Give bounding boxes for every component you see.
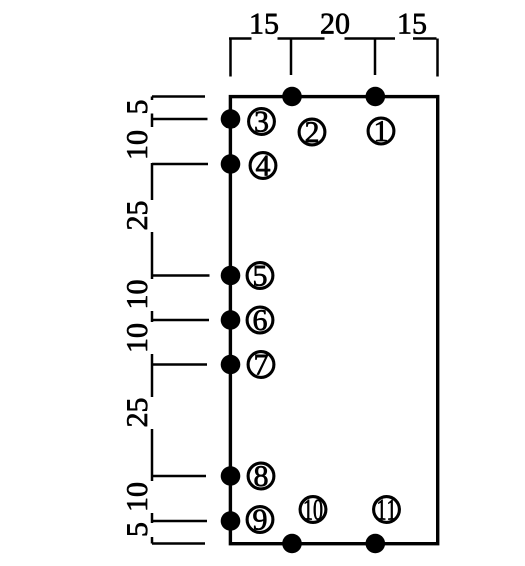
dim label 10 (left, segment 5) bbox=[127, 324, 147, 350]
dim label 15 (top left) bbox=[252, 14, 278, 34]
hole 5 (left edge) bbox=[221, 266, 241, 286]
tick: left dimension at 85 bbox=[152, 475, 206, 478]
label circle 8 bbox=[248, 463, 274, 489]
hole 8 (left edge) bbox=[221, 466, 241, 486]
label circle 11 bbox=[374, 497, 400, 523]
tick: top dimension right end bbox=[436, 39, 439, 77]
wire: left dimension segment 4 bbox=[151, 232, 154, 279]
label circle 3 bbox=[249, 109, 275, 135]
wire: top dimension segment 4 bbox=[413, 37, 437, 40]
label circle 4 bbox=[250, 153, 276, 179]
hole 7 (left edge) bbox=[221, 355, 241, 375]
wire: left dimension segment 7 bbox=[151, 429, 154, 481]
hole 3 (left edge) bbox=[221, 109, 241, 129]
label circle 7 bbox=[248, 352, 274, 378]
dim label 15 (top right) bbox=[400, 14, 426, 34]
tick: left dimension at 5 bbox=[152, 118, 208, 121]
tick: top dimension at 35 bbox=[374, 39, 377, 76]
wire: top dimension segment 2 bbox=[278, 37, 325, 40]
dim label 25 (left, segment 6) bbox=[127, 399, 147, 427]
hole 11 (bottom edge right) bbox=[366, 534, 386, 554]
hole 1 (top edge right) bbox=[366, 87, 386, 107]
tick: left dimension bottom end bbox=[152, 542, 205, 545]
wire: left dimension segment 8 bbox=[151, 513, 154, 523]
dim label 10 (left, segment 4) bbox=[127, 281, 147, 307]
tick: top dimension left end bbox=[229, 39, 232, 77]
dim label 10 (left, segment 2) bbox=[127, 131, 147, 157]
hole 9 (left edge) bbox=[221, 511, 241, 531]
label circle 10 bbox=[300, 497, 326, 523]
wire: left dimension segment 1 bbox=[151, 97, 154, 101]
wire: top dimension segment 3 bbox=[345, 37, 396, 40]
hole 6 (left edge) bbox=[221, 310, 241, 330]
hole 10 (bottom edge left) bbox=[282, 534, 302, 554]
wire: left dimension segment 9 bbox=[151, 537, 154, 544]
tick: left dimension at 40 bbox=[152, 274, 210, 277]
tick: left dimension at 95 bbox=[152, 520, 207, 523]
wire: left dimension segment 2 bbox=[151, 114, 154, 128]
hole 4 (left edge) bbox=[221, 154, 241, 174]
dim label 25 (left, segment 3) bbox=[127, 202, 147, 230]
wire: left dimension segment 5 bbox=[151, 311, 154, 322]
tick: left dimension at 15 bbox=[152, 163, 208, 166]
label circle 9 bbox=[247, 507, 273, 533]
dim label 10 (left, segment 7) bbox=[127, 483, 147, 509]
dim label 5 (left, segment 1) bbox=[127, 101, 147, 113]
label circle 2 bbox=[299, 119, 325, 145]
tick: left dimension top end bbox=[152, 95, 205, 98]
label circle 1 bbox=[368, 118, 394, 144]
wire: left dimension segment 6 bbox=[151, 354, 154, 397]
hole 2 (top edge left) bbox=[282, 87, 302, 107]
tick: left dimension at 50 bbox=[152, 319, 209, 322]
tick: left dimension at 60 bbox=[152, 363, 207, 366]
wire: left dimension segment 3 bbox=[151, 163, 154, 200]
label circle 6 bbox=[247, 307, 273, 333]
plate outline rectangle bbox=[230, 97, 437, 544]
wire: top dimension segment 1 bbox=[229, 37, 252, 40]
dim label 5 (left, segment 8) bbox=[127, 523, 147, 535]
tick: top dimension at 15 bbox=[290, 39, 293, 76]
label circle 5 bbox=[247, 263, 273, 289]
dim label 20 (top middle) bbox=[321, 14, 349, 34]
